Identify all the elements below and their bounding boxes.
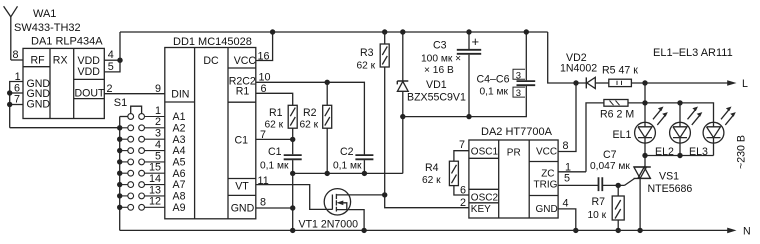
DA1 pin 6 wire: [10, 92, 23, 94]
switch S1 row 2 (pin 2/A2): [128, 125, 134, 131]
capacitor C3: [421, 32, 481, 117]
resistor R1: [265, 105, 298, 130]
svg-text:A5: A5: [173, 157, 186, 169]
svg-text:6: 6: [261, 83, 267, 95]
svg-text:R1: R1: [269, 107, 283, 119]
svg-text:A1: A1: [173, 111, 186, 123]
svg-text:EL1–EL3 AR111: EL1–EL3 AR111: [653, 47, 733, 59]
svg-text:EL1: EL1: [613, 129, 632, 141]
svg-text:13: 13: [149, 184, 161, 196]
svg-text:BZX55C9V1: BZX55C9V1: [407, 92, 466, 104]
receiver module DA1 RLP434A: [23, 35, 105, 118]
svg-text:SW433-TH32: SW433-TH32: [14, 22, 81, 34]
svg-text:NTE5686: NTE5686: [648, 183, 693, 195]
svg-text:+: +: [472, 34, 480, 49]
LED lamp EL1: [613, 107, 668, 144]
svg-text:3: 3: [516, 70, 521, 81]
capacitors C4-C6: [477, 32, 536, 99]
svg-text:A8: A8: [173, 191, 186, 203]
terminal N: [727, 228, 736, 234]
wire R5 to L terminal: [631, 82, 728, 84]
zener VD1 BZX55C9V1: [397, 32, 466, 117]
svg-text:DIN: DIN: [171, 88, 189, 100]
DD1 pin 11 VT wire to VT1 gate: [256, 185, 333, 210]
svg-text:A9: A9: [173, 202, 186, 214]
DD1 pin 7 C1 wire: [256, 138, 293, 140]
svg-text:62 к: 62 к: [265, 120, 284, 131]
LED lamp EL3: [689, 107, 736, 158]
svg-text:A4: A4: [173, 145, 186, 157]
svg-text:N: N: [743, 226, 751, 238]
svg-text:A6: A6: [173, 168, 186, 180]
switch S1 row 5 (pin 5/A5): [128, 159, 134, 165]
svg-text:1: 1: [15, 71, 21, 83]
svg-text:62 к: 62 к: [422, 175, 441, 186]
svg-text:5: 5: [564, 173, 570, 185]
svg-text:16: 16: [258, 51, 270, 63]
S1 switch contacts: [117, 105, 165, 210]
svg-text:3: 3: [516, 88, 521, 99]
svg-text:10 к: 10 к: [588, 210, 607, 221]
wire EL1 anode drop: [644, 83, 646, 122]
switch S1 row 1 (pin 1/A1): [128, 114, 134, 120]
svg-text:10: 10: [259, 72, 271, 84]
svg-text:5: 5: [108, 61, 114, 73]
svg-text:0,047 мк: 0,047 мк: [590, 161, 630, 172]
svg-text:6: 6: [460, 185, 466, 197]
svg-text:R4: R4: [425, 162, 439, 174]
svg-text:RX: RX: [53, 55, 68, 67]
svg-text:7: 7: [459, 139, 465, 151]
DA1 pin 4 wire: [104, 59, 120, 61]
svg-text:OSC1: OSC1: [471, 146, 499, 157]
switch S1: [114, 97, 142, 230]
DA2 pin 5 TRIG wire: [558, 184, 598, 186]
svg-text:14: 14: [149, 173, 161, 185]
svg-text:VD1: VD1: [426, 79, 447, 91]
switch S1 row 6 (pin 15/A6): [128, 170, 134, 176]
resistor R5: [602, 65, 638, 87]
switch S1 row 7 (pin 14/A7): [128, 182, 134, 188]
LED anode rail: [628, 103, 714, 122]
wire R2 bottom: [326, 128, 328, 173]
svg-text:C4–C6: C4–C6: [477, 74, 510, 86]
top supply rail: [120, 31, 548, 33]
switch S1 row 8 (pin 13/A8): [128, 193, 134, 199]
DA1 pin 5 wire: [104, 60, 120, 72]
svg-text:A7: A7: [173, 179, 186, 191]
svg-text:4: 4: [108, 49, 114, 61]
svg-text:R5 47 к: R5 47 к: [602, 65, 638, 77]
svg-text:R2: R2: [303, 107, 317, 119]
svg-text:C1: C1: [235, 134, 249, 146]
svg-text:GND: GND: [231, 203, 255, 215]
antenna WA1: [4, 6, 81, 60]
svg-text:TRIG: TRIG: [534, 179, 558, 190]
node VDD junction: [117, 58, 122, 63]
svg-text:GND: GND: [27, 99, 51, 111]
wire C1 node down to DD1 GND and bottom rail: [292, 173, 294, 230]
svg-text:VT1 2N7000: VT1 2N7000: [299, 219, 359, 231]
resistor R2: [300, 105, 332, 130]
svg-text:6: 6: [14, 82, 20, 94]
svg-text:62 к: 62 к: [357, 61, 376, 72]
svg-text:RF: RF: [31, 55, 46, 67]
capacitor C7: [590, 149, 630, 191]
DA2 pin 1 ZC wire: [558, 171, 586, 173]
svg-text:4: 4: [155, 139, 161, 151]
wire R2 top: [326, 82, 328, 105]
svg-text:C2: C2: [340, 146, 354, 158]
svg-text:DA1 RLP434A: DA1 RLP434A: [31, 35, 103, 47]
svg-text:R3: R3: [360, 47, 374, 59]
wire gate to triac: [625, 179, 635, 186]
switch S1 row 4 (pin 4/A4): [128, 148, 134, 154]
svg-text:R7: R7: [592, 196, 606, 208]
svg-text:OSC2: OSC2: [471, 192, 499, 203]
switch S1 row 9 (pin 12/A9): [128, 204, 134, 210]
DA1 pin 2 DOUT wire to DD1 DIN: [104, 93, 165, 95]
node common rail: [293, 172, 403, 174]
wire R3 bottom to VT1 drain and DA2 KEY: [385, 67, 469, 208]
svg-text:VS1: VS1: [659, 171, 679, 183]
svg-text:R1: R1: [236, 85, 250, 97]
wire R1 bottom to C1: [292, 128, 294, 154]
svg-text:9: 9: [155, 83, 161, 95]
svg-text:4: 4: [563, 198, 569, 210]
resistor R3: [357, 44, 390, 72]
DD1 pin 16 VCC wire: [256, 32, 273, 61]
bottom rail N: [120, 229, 728, 231]
DA2 pin 4 GND wire: [558, 209, 576, 231]
resistor R7: [588, 185, 625, 230]
svg-text:~230 В: ~230 В: [736, 135, 748, 169]
wire R3 top: [384, 32, 386, 44]
svg-text:62 к: 62 к: [300, 120, 319, 131]
svg-text:ZC: ZC: [541, 169, 554, 180]
svg-text:0,1 мк: 0,1 мк: [260, 160, 289, 171]
wire top rail down to mains branch: [548, 32, 587, 83]
supply minus rail: [403, 86, 527, 117]
resistor R4: [422, 161, 458, 186]
DA2 pin 6 OSC2 wire: [454, 186, 469, 195]
DA2 pin 8 VCC wire: [558, 83, 576, 152]
DD1 pin 8 GND wire: [256, 207, 293, 209]
svg-text:DOUT: DOUT: [75, 87, 106, 99]
svg-text:5: 5: [155, 150, 161, 162]
svg-text:15: 15: [149, 162, 161, 174]
svg-text:1: 1: [155, 105, 161, 117]
svg-text:WA1: WA1: [33, 8, 56, 20]
capacitor C1: [260, 146, 302, 171]
svg-text:7: 7: [14, 94, 20, 106]
DA1 pin 1 wire: [10, 82, 23, 128]
switch S1 row 3 (pin 3/A3): [128, 136, 134, 142]
DA1 pin 7 wire: [10, 104, 23, 106]
svg-text:KEY: KEY: [471, 204, 491, 215]
svg-text:VDD: VDD: [78, 66, 101, 78]
capacitor C2: [333, 146, 373, 171]
svg-text:PR: PR: [507, 148, 521, 159]
wire VDD riser to top rail: [119, 32, 121, 60]
svg-text:8: 8: [13, 49, 19, 61]
svg-text:2: 2: [155, 116, 161, 128]
wire GND bus to S1 common: [10, 127, 120, 129]
svg-text:8: 8: [563, 140, 569, 152]
svg-text:A2: A2: [173, 122, 186, 134]
wire antenna to DA1 pin 8: [11, 59, 23, 61]
svg-text:VT: VT: [235, 181, 249, 193]
DA2 phase controller HT7700A: [469, 126, 558, 218]
svg-text:VCC: VCC: [536, 146, 557, 157]
svg-text:C7: C7: [603, 149, 617, 161]
resistor R6: [586, 100, 634, 172]
svg-text:C3: C3: [433, 40, 447, 52]
svg-text:L: L: [742, 78, 748, 90]
svg-text:0,1 мк: 0,1 мк: [480, 87, 509, 98]
svg-text:R6 2 М: R6 2 М: [600, 109, 634, 121]
svg-text:12: 12: [149, 196, 161, 208]
svg-text:GND: GND: [536, 204, 558, 215]
svg-text:DA2 HT7700A: DA2 HT7700A: [481, 126, 553, 138]
LED cathode rail: [645, 143, 714, 155]
svg-text:DC: DC: [203, 55, 219, 67]
svg-text:S1: S1: [114, 97, 127, 109]
svg-text:A3: A3: [173, 134, 186, 146]
triac VS1 NTE5686: [634, 156, 693, 231]
svg-text:100 мк ×: 100 мк ×: [421, 53, 461, 64]
svg-text:11: 11: [258, 175, 269, 187]
DD1 decoder MC145028: [165, 36, 257, 219]
svg-text:2: 2: [460, 197, 466, 209]
svg-text:2: 2: [107, 83, 113, 95]
DD1 pin 6 R1 wire: [256, 93, 293, 105]
svg-text:3: 3: [155, 128, 161, 140]
terminal L: [727, 80, 736, 86]
transistor VT1 2N7000: [299, 189, 385, 231]
svg-text:VCC: VCC: [234, 55, 257, 67]
svg-text:C1: C1: [268, 146, 282, 158]
LED lamp EL2: [655, 107, 702, 158]
DD1 pin 10 R2C2 wire: [256, 82, 365, 155]
svg-text:1N4002: 1N4002: [560, 63, 597, 75]
svg-text:DD1 MC145028: DD1 MC145028: [173, 36, 252, 48]
svg-text:× 16 В: × 16 В: [424, 65, 454, 76]
diode VD2 1N4002: [560, 52, 609, 89]
svg-text:8: 8: [260, 197, 266, 209]
svg-text:7: 7: [260, 129, 266, 141]
DA2 pin 7 OSC1 wire: [454, 151, 469, 162]
svg-text:0,1 мк: 0,1 мк: [333, 160, 362, 171]
